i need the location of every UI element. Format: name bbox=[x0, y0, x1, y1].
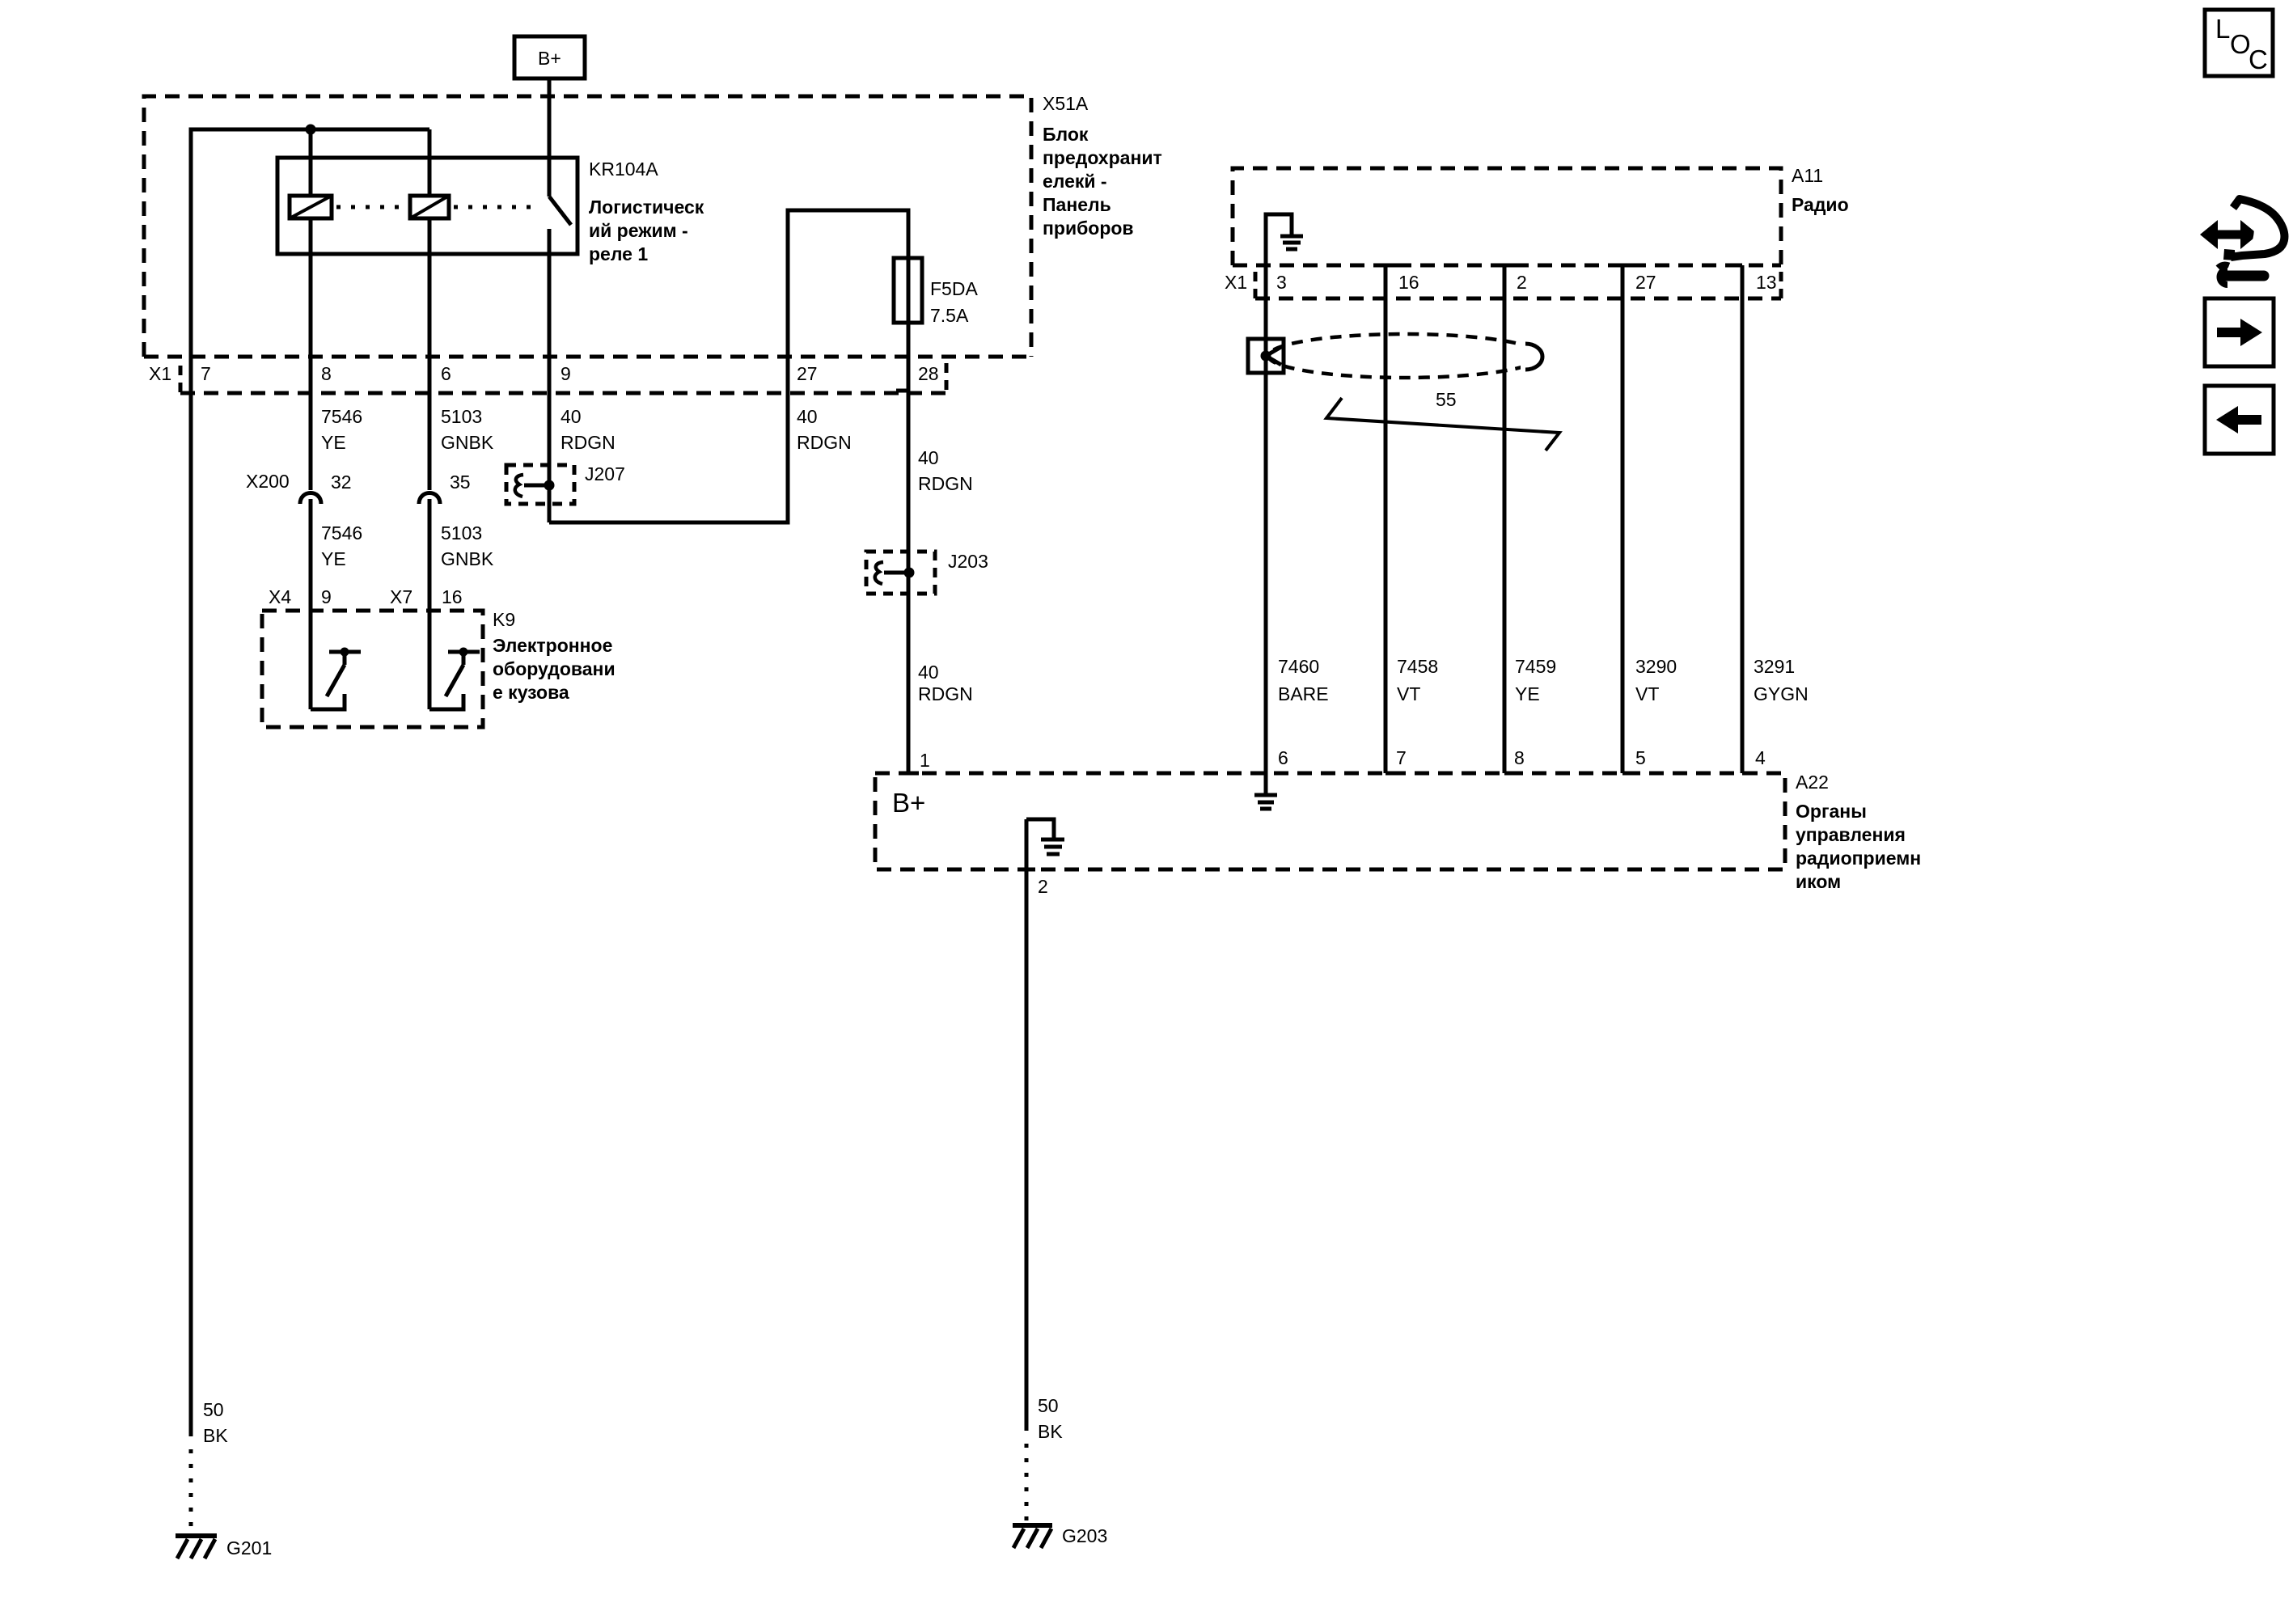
svg-text:3291: 3291 bbox=[1754, 656, 1795, 677]
module K9 dashed box bbox=[262, 611, 483, 727]
svg-text:9: 9 bbox=[561, 363, 571, 384]
switch in K9 (left) bbox=[311, 648, 361, 710]
svg-text:5103: 5103 bbox=[441, 406, 482, 427]
connector X200 arc on wire 8 bbox=[300, 493, 321, 505]
fuse F5DA bbox=[894, 258, 922, 323]
svg-text:управления: управления bbox=[1796, 824, 1906, 845]
svg-text:J203: J203 bbox=[948, 551, 988, 572]
wire pin 2 bbox=[1504, 265, 1516, 773]
svg-text:Логистическ: Логистическ bbox=[589, 197, 704, 218]
svg-text:7546: 7546 bbox=[321, 406, 362, 427]
ground symbol at pin 6 inside A22 bbox=[1254, 773, 1277, 809]
svg-text:6: 6 bbox=[1278, 747, 1288, 768]
svg-text:BK: BK bbox=[1038, 1421, 1063, 1442]
switch in K9 (right) bbox=[429, 648, 480, 710]
svg-text:40: 40 bbox=[561, 406, 582, 427]
svg-text:1: 1 bbox=[920, 750, 930, 771]
svg-text:VT: VT bbox=[1397, 683, 1420, 704]
svg-text:7.5A: 7.5A bbox=[930, 305, 969, 326]
backward arrow box bbox=[2205, 386, 2274, 454]
connector X1 strip of X51A bbox=[180, 363, 948, 393]
LOC legend box bbox=[2205, 10, 2273, 76]
double arrow bbox=[2215, 230, 2244, 239]
svg-text:KR104A: KR104A bbox=[589, 159, 658, 180]
svg-text:3: 3 bbox=[1276, 272, 1287, 293]
svg-text:40: 40 bbox=[918, 662, 939, 683]
label Блок предохранителей - Панель приборов bbox=[1043, 124, 1162, 239]
svg-text:16: 16 bbox=[442, 586, 463, 607]
svg-text:елекй -: елекй - bbox=[1043, 171, 1107, 192]
wire B+ to relay switch bbox=[548, 78, 552, 197]
svg-text:Органы: Органы bbox=[1796, 801, 1867, 822]
svg-text:4: 4 bbox=[1755, 747, 1766, 768]
wire pin 16 bbox=[1386, 265, 1397, 773]
svg-text:55: 55 bbox=[1436, 389, 1457, 410]
svg-text:J207: J207 bbox=[585, 463, 625, 484]
svg-text:X1: X1 bbox=[1225, 272, 1247, 293]
svg-text:5103: 5103 bbox=[441, 522, 482, 543]
splice J203 symbol bbox=[875, 562, 915, 584]
svg-text:G201: G201 bbox=[226, 1537, 272, 1558]
wire pin 2 of A22 to G203 bbox=[1025, 819, 1029, 1431]
wire top bus to pin 7 bbox=[191, 129, 429, 1436]
svg-text:7: 7 bbox=[1396, 747, 1407, 768]
wire pin6 lower to K9 bbox=[428, 499, 432, 709]
svg-text:оборудовани: оборудовани bbox=[493, 658, 616, 679]
svg-text:F5DA: F5DA bbox=[930, 278, 978, 299]
wire coil1 to pin 8 bbox=[309, 218, 313, 490]
pin 5 tick bbox=[1622, 772, 1636, 776]
pin 4 tick bbox=[1742, 772, 1756, 776]
harness routing icon bbox=[2200, 199, 2284, 285]
node junction dot bbox=[306, 125, 316, 135]
svg-text:радиоприемн: радиоприемн bbox=[1796, 848, 1921, 869]
svg-text:Радио: Радио bbox=[1792, 194, 1849, 215]
fuse block X51A dashed box bbox=[144, 96, 1031, 357]
ground symbol at pin 2 inside A22 bbox=[1026, 819, 1064, 854]
pin 1 tick bbox=[908, 772, 919, 776]
relay coil 2 bbox=[410, 129, 449, 218]
dotted wire tail to G201 bbox=[189, 1449, 193, 1533]
svg-text:GNBK: GNBK bbox=[441, 548, 494, 569]
svg-text:L: L bbox=[2215, 14, 2230, 44]
svg-text:A22: A22 bbox=[1796, 772, 1829, 793]
svg-text:GNBK: GNBK bbox=[441, 432, 494, 453]
svg-text:приборов: приборов bbox=[1043, 218, 1134, 239]
svg-text:BARE: BARE bbox=[1278, 683, 1329, 704]
svg-text:YE: YE bbox=[321, 548, 346, 569]
pin 2 tick bbox=[1026, 868, 1035, 872]
bent wire arrow bbox=[2231, 199, 2284, 257]
svg-text:X4: X4 bbox=[269, 586, 291, 607]
svg-text:32: 32 bbox=[331, 472, 352, 493]
coax shield dashed ellipse bbox=[1268, 332, 1553, 380]
svg-text:RDGN: RDGN bbox=[918, 683, 973, 704]
connector X200 arc on wire 6 bbox=[419, 493, 440, 505]
svg-text:9: 9 bbox=[321, 586, 332, 607]
chassis ground G201 bbox=[176, 1536, 217, 1558]
svg-text:27: 27 bbox=[1635, 272, 1656, 293]
wire pin8 lower to K9 bbox=[309, 499, 313, 709]
svg-text:28: 28 bbox=[918, 363, 939, 384]
svg-text:иком: иком bbox=[1796, 871, 1841, 892]
svg-text:A11: A11 bbox=[1792, 165, 1823, 186]
splice J207 dashed box bbox=[506, 465, 574, 504]
wire pin 13 bbox=[1731, 265, 1742, 773]
power node B+ bbox=[514, 36, 585, 78]
ground symbol inside A11 bbox=[1266, 214, 1303, 265]
svg-text:5: 5 bbox=[1635, 747, 1646, 768]
connector X1 strip of A11 bbox=[1255, 272, 1781, 298]
svg-text:B+: B+ bbox=[892, 788, 925, 818]
wire pin9 to pin27 lower run bbox=[549, 210, 908, 773]
svg-text:50: 50 bbox=[203, 1399, 224, 1420]
svg-text:C: C bbox=[2249, 44, 2268, 74]
svg-text:8: 8 bbox=[1514, 747, 1525, 768]
svg-text:RDGN: RDGN bbox=[918, 473, 973, 494]
svg-text:Панель: Панель bbox=[1043, 194, 1111, 215]
svg-text:Блок: Блок bbox=[1043, 124, 1089, 145]
svg-text:VT: VT bbox=[1635, 683, 1659, 704]
svg-text:реле 1: реле 1 bbox=[589, 243, 648, 264]
svg-text:40: 40 bbox=[797, 406, 818, 427]
svg-text:YE: YE bbox=[1515, 683, 1540, 704]
svg-text:O: O bbox=[2230, 29, 2251, 59]
wire coil2 to pin 6 bbox=[428, 218, 432, 490]
svg-text:G203: G203 bbox=[1062, 1525, 1107, 1546]
svg-text:YE: YE bbox=[321, 432, 346, 453]
relay switch blade bbox=[549, 197, 571, 225]
svg-text:GYGN: GYGN bbox=[1754, 683, 1809, 704]
label Логистический режим - реле 1 bbox=[589, 197, 704, 264]
pin 28 ticks bbox=[896, 355, 907, 359]
dotted wire tail to G203 bbox=[1025, 1444, 1029, 1523]
wire pin 27 bbox=[1622, 265, 1634, 773]
svg-text:7460: 7460 bbox=[1278, 656, 1319, 677]
svg-text:7546: 7546 bbox=[321, 522, 362, 543]
svg-text:X7: X7 bbox=[390, 586, 412, 607]
splice J203 dashed box bbox=[866, 552, 935, 594]
relay KR104A box bbox=[277, 158, 577, 254]
pin 7 tick bbox=[1386, 772, 1396, 776]
forward arrow box bbox=[2205, 298, 2274, 366]
svg-text:Электронное: Электронное bbox=[493, 635, 612, 656]
svg-text:RDGN: RDGN bbox=[561, 432, 616, 453]
svg-text:16: 16 bbox=[1398, 272, 1419, 293]
radio A11 dashed box bbox=[1233, 168, 1781, 265]
relay actuator dotted link bbox=[336, 205, 540, 209]
svg-text:3290: 3290 bbox=[1635, 656, 1677, 677]
svg-text:27: 27 bbox=[797, 363, 818, 384]
svg-text:50: 50 bbox=[1038, 1395, 1059, 1416]
svg-text:2: 2 bbox=[1038, 876, 1048, 897]
svg-text:13: 13 bbox=[1756, 272, 1777, 293]
svg-text:8: 8 bbox=[321, 363, 332, 384]
pin 6 tick bbox=[1254, 772, 1266, 776]
svg-text:ий режим -: ий режим - bbox=[589, 220, 688, 241]
relay coil 1 bbox=[290, 129, 332, 218]
svg-text:35: 35 bbox=[450, 472, 471, 493]
svg-text:BK: BK bbox=[203, 1425, 228, 1446]
wire switch lower contact to pin 9 bbox=[548, 229, 552, 522]
svg-text:2: 2 bbox=[1517, 272, 1527, 293]
svg-text:е кузова: е кузова bbox=[493, 682, 569, 703]
svg-text:X51A: X51A bbox=[1043, 93, 1089, 114]
svg-text:7458: 7458 bbox=[1397, 656, 1438, 677]
svg-text:предохранит: предохранит bbox=[1043, 147, 1162, 168]
svg-text:X200: X200 bbox=[246, 471, 290, 492]
pin 8 tick bbox=[1504, 772, 1515, 776]
svg-text:40: 40 bbox=[918, 447, 939, 468]
svg-text:7459: 7459 bbox=[1515, 656, 1556, 677]
radio controls A22 dashed box bbox=[875, 773, 1785, 869]
svg-text:7: 7 bbox=[201, 363, 211, 384]
antenna coax connector on pin 3 wire bbox=[1248, 339, 1284, 373]
label Электронное оборудование кузова bbox=[493, 635, 616, 703]
svg-text:RDGN: RDGN bbox=[797, 432, 852, 453]
splice J207 symbol bbox=[515, 475, 555, 497]
svg-text:K9: K9 bbox=[493, 609, 515, 630]
svg-text:6: 6 bbox=[441, 363, 451, 384]
chassis ground G203 bbox=[1013, 1525, 1052, 1548]
lower bar with hook bbox=[2226, 271, 2264, 281]
wire pin 3 antenna lead bbox=[1264, 265, 1268, 773]
svg-text:X1: X1 bbox=[149, 363, 171, 384]
svg-text:B+: B+ bbox=[538, 48, 561, 69]
label Органы управления радиоприемником bbox=[1796, 801, 1921, 892]
shield pointer line bbox=[1326, 398, 1559, 450]
